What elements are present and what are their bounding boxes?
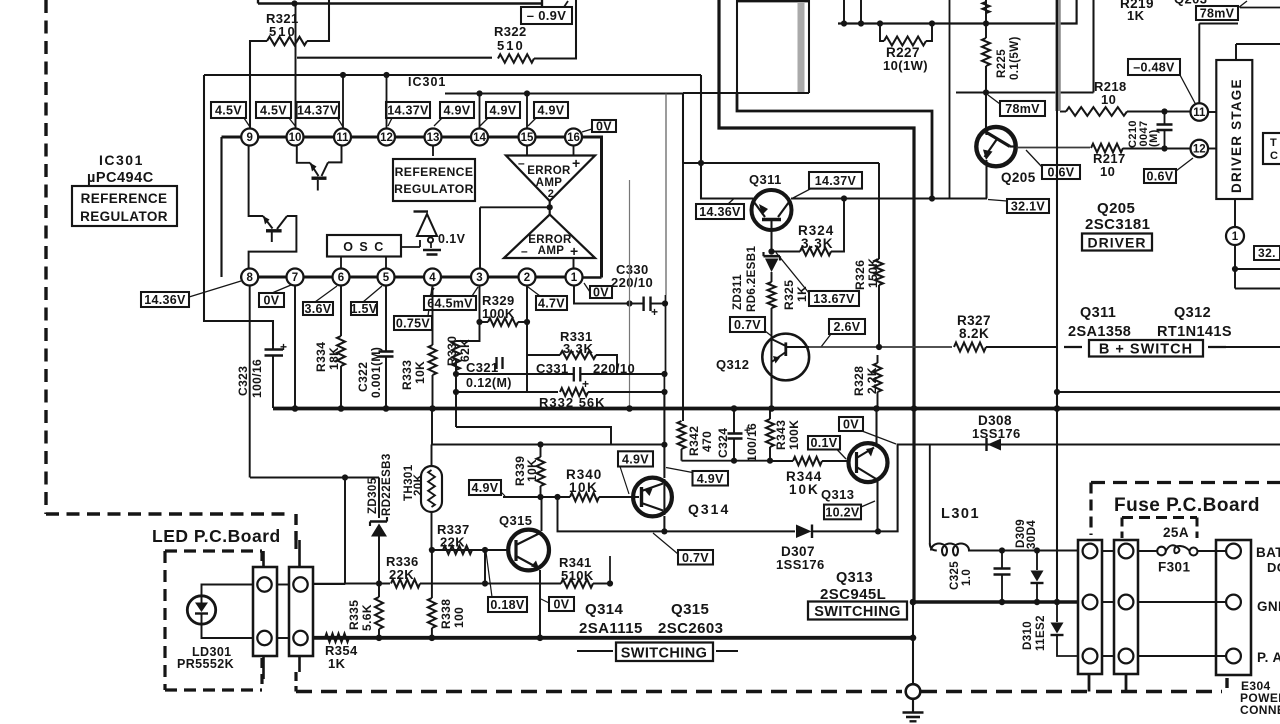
svg-text:1SS176: 1SS176 bbox=[776, 557, 825, 572]
svg-text:11: 11 bbox=[1193, 107, 1206, 119]
text IC301 top bbox=[408, 75, 446, 89]
svg-text:0V: 0V bbox=[554, 598, 570, 612]
label 0.18V bbox=[486, 552, 527, 612]
label 13.67V bbox=[776, 253, 859, 307]
svg-text:ERROR: ERROR bbox=[527, 165, 571, 177]
resistor R217 bbox=[1091, 144, 1191, 179]
svg-text:R342: R342 bbox=[687, 426, 701, 456]
svg-text:2SC2603: 2SC2603 bbox=[658, 620, 723, 637]
svg-text:IC301: IC301 bbox=[99, 152, 144, 168]
wire pin10 riser bbox=[295, 4, 297, 130]
wire Q312 emitter to bus bbox=[770, 380, 772, 409]
svg-text:RT1N141S: RT1N141S bbox=[1157, 324, 1232, 340]
node D309 top bbox=[1034, 547, 1040, 553]
svg-text:C325: C325 bbox=[949, 561, 961, 590]
svg-text:4: 4 bbox=[429, 272, 436, 284]
label -0.9V bbox=[521, 1, 572, 24]
label 0V Q315 bbox=[541, 597, 574, 612]
svg-text:DC: DC bbox=[1267, 560, 1280, 575]
node R337 right bbox=[482, 547, 488, 553]
label 14.37V pin12 bbox=[386, 102, 430, 126]
pin 3 IC301 bbox=[471, 269, 488, 286]
text GND bbox=[1257, 599, 1280, 614]
capacitor C330 bbox=[611, 262, 665, 319]
node pin11 tap bbox=[340, 72, 346, 78]
wire IC pin rail top bbox=[222, 136, 583, 139]
sawtooth osc symbol bbox=[401, 212, 466, 255]
node bus x914 bbox=[911, 405, 918, 412]
svg-text:11ES2: 11ES2 bbox=[1035, 615, 1047, 651]
wire line A bbox=[456, 373, 665, 375]
pin 4 IC301 bbox=[424, 269, 441, 286]
wire IC left edge bbox=[220, 137, 222, 277]
node line A left bbox=[453, 371, 459, 377]
node C330 left bbox=[626, 300, 632, 306]
text Q205 2SC3181 bbox=[1085, 200, 1150, 233]
label 0V pin16 bbox=[582, 120, 616, 134]
text LED P.C.Board bbox=[152, 526, 281, 546]
wire bottom-left dashed bbox=[46, 514, 296, 540]
text Q312 ref bbox=[716, 357, 749, 372]
pin 11 IC301 bbox=[334, 129, 351, 146]
label 4.9V pin13 bbox=[434, 102, 474, 126]
label REFERENCE REGULATOR bbox=[72, 186, 177, 226]
node bus x734 bbox=[731, 405, 738, 412]
label 4.7V pin2 bbox=[528, 287, 567, 311]
node x485 y583 bbox=[482, 580, 488, 586]
resistor R324 bbox=[772, 199, 845, 256]
op-amp ERROR AMP 1 bbox=[504, 201, 595, 259]
resistor R331 bbox=[527, 322, 617, 392]
node x1057 y392 bbox=[1054, 389, 1060, 395]
svg-text:R334: R334 bbox=[314, 342, 328, 372]
label 1.5V pin5 bbox=[351, 286, 382, 316]
resistor R327 bbox=[954, 313, 1058, 352]
node R343 bottom bbox=[767, 458, 773, 464]
node Q311 base node bbox=[768, 248, 774, 254]
text Q312 type bbox=[1157, 305, 1232, 340]
resistor R325 bbox=[768, 280, 810, 337]
wire pin12 stub right bbox=[1208, 148, 1216, 150]
svg-text:RD22ESB3: RD22ESB3 bbox=[381, 453, 393, 516]
svg-text:Q314: Q314 bbox=[585, 601, 624, 618]
wire row3 conn2-3 bbox=[1138, 655, 1226, 657]
svg-text:4.9V: 4.9V bbox=[490, 104, 517, 118]
resistor R218 bbox=[1066, 79, 1127, 116]
capacitor C210 bbox=[1127, 112, 1173, 151]
capacitor C321 bbox=[456, 357, 512, 427]
svg-text:REFERENCE: REFERENCE bbox=[81, 191, 168, 206]
svg-text:(M): (M) bbox=[1148, 129, 1160, 147]
diode D307 bbox=[776, 525, 825, 573]
node x664 y444 bbox=[661, 442, 667, 448]
node Q311 emitter tap bbox=[698, 160, 704, 166]
transistor Q311 bbox=[752, 190, 792, 252]
wire y92 rail bbox=[956, 0, 1094, 93]
label 0.7V Q312 bbox=[730, 317, 772, 336]
wire B+ line right bbox=[1222, 346, 1280, 348]
label 14.36V Q311 bbox=[696, 199, 744, 220]
wire OSC pin6 lead bbox=[340, 257, 342, 270]
node bus x386 bbox=[383, 405, 390, 412]
svg-text:Q311: Q311 bbox=[1080, 305, 1116, 321]
resistor R338 bbox=[428, 550, 466, 638]
transistor Q315 bbox=[508, 530, 549, 571]
wire grey band top center bbox=[798, 2, 805, 92]
svg-text:14.37V: 14.37V bbox=[815, 174, 857, 188]
svg-text:IC301: IC301 bbox=[408, 75, 446, 89]
node bus x1057 bbox=[1054, 405, 1061, 412]
label REFERENCE REGULATOR internal bbox=[393, 159, 475, 201]
pin 8 IC301 bbox=[241, 269, 258, 286]
wire Q312 base line bbox=[809, 346, 952, 348]
svg-text:10K: 10K bbox=[413, 361, 427, 384]
thermistor TH301 bbox=[403, 445, 442, 551]
wire LED top link bbox=[202, 585, 254, 597]
svg-text:64.5mV: 64.5mV bbox=[427, 297, 473, 311]
svg-text:R322: R322 bbox=[494, 24, 527, 39]
label 0V pin1 bbox=[584, 283, 612, 300]
pin 12 IC301 bbox=[378, 129, 395, 146]
svg-text:3.6V: 3.6V bbox=[305, 302, 332, 316]
wire x664 chord bbox=[663, 479, 665, 515]
svg-text:R328: R328 bbox=[852, 366, 866, 396]
svg-text:15: 15 bbox=[521, 132, 534, 144]
svg-text:Q315: Q315 bbox=[671, 601, 709, 618]
pin 7 IC301 bbox=[287, 269, 304, 286]
svg-text:100: 100 bbox=[452, 607, 466, 628]
svg-text:2SA1115: 2SA1115 bbox=[579, 620, 643, 637]
wire top rail bbox=[258, 0, 542, 7]
wire pin13 stub bbox=[432, 146, 434, 157]
svg-text:DRIVER: DRIVER bbox=[1088, 235, 1147, 251]
svg-text:SWITCHING: SWITCHING bbox=[814, 604, 901, 620]
node line A right bbox=[661, 371, 667, 377]
svg-text:1: 1 bbox=[571, 272, 578, 284]
label 64.5mV pin3 bbox=[424, 287, 478, 311]
wire Q311 emitter link bbox=[701, 163, 753, 199]
transistor Q314 bbox=[633, 478, 672, 517]
svg-text:R335: R335 bbox=[347, 600, 361, 630]
resistor R343 bbox=[766, 409, 801, 461]
svg-text:5: 5 bbox=[383, 272, 390, 284]
capacitor C324 bbox=[716, 409, 759, 463]
svg-text:14: 14 bbox=[473, 132, 486, 144]
text Q205 ref bbox=[1001, 170, 1036, 185]
wire amp2 input stubs bbox=[527, 146, 574, 156]
pin 2 IC301 bbox=[519, 269, 536, 286]
wire dashed drop to connector bbox=[294, 540, 297, 553]
svg-text:REGULATOR: REGULATOR bbox=[394, 182, 474, 196]
resistor R326 bbox=[853, 163, 883, 346]
resistor R337 bbox=[437, 522, 472, 554]
svg-text:14.37V: 14.37V bbox=[297, 104, 339, 118]
oscillator OSC box bbox=[327, 235, 401, 257]
label 0.1V bbox=[808, 436, 846, 459]
svg-text:C: C bbox=[1270, 150, 1278, 162]
svg-text:DRIVER STAGE: DRIVER STAGE bbox=[1229, 78, 1244, 193]
node y23 b bbox=[858, 20, 864, 26]
resistor R336 bbox=[386, 554, 485, 588]
wire conn1-2 row1 bbox=[1102, 550, 1114, 552]
svg-text:– 0.9V: – 0.9V bbox=[527, 8, 566, 23]
svg-text:ZD305: ZD305 bbox=[367, 477, 379, 514]
wire x913 ground drop bbox=[912, 602, 914, 684]
wire connB bottom stub bbox=[298, 656, 301, 672]
svg-text:510K: 510K bbox=[561, 568, 594, 583]
node C330 right bbox=[662, 300, 668, 306]
node pin15 tap bbox=[524, 90, 530, 96]
wire pin1 driver top bbox=[1234, 199, 1236, 227]
svg-text:SWITCHING: SWITCHING bbox=[621, 646, 708, 662]
svg-text:R225: R225 bbox=[996, 49, 1008, 78]
svg-text:3: 3 bbox=[476, 272, 482, 284]
svg-text:0.7V: 0.7V bbox=[682, 551, 709, 565]
svg-text:3.3K: 3.3K bbox=[801, 236, 834, 251]
transistor Q313 bbox=[849, 443, 888, 482]
node bus2 right bbox=[910, 635, 917, 642]
svg-text:R338: R338 bbox=[439, 599, 453, 629]
wire conn1-2 row2 bbox=[1102, 601, 1114, 603]
wire Q315 collector bbox=[541, 497, 543, 531]
svg-text:16: 16 bbox=[567, 132, 580, 144]
node pin14 tap bbox=[476, 90, 482, 96]
label 0.6V left bbox=[1026, 150, 1080, 180]
svg-text:2SC3181: 2SC3181 bbox=[1085, 216, 1150, 233]
svg-text:C321: C321 bbox=[466, 360, 499, 375]
ground symbol bbox=[903, 684, 924, 721]
node R329 left bbox=[476, 319, 482, 325]
resistor R340 bbox=[541, 467, 640, 501]
svg-text:1SS176: 1SS176 bbox=[972, 426, 1021, 441]
svg-text:LED P.C.Board: LED P.C.Board bbox=[152, 526, 281, 546]
wire LED bottom link bbox=[202, 624, 254, 638]
label 4.9V Q314 right bbox=[666, 468, 728, 486]
text LD301 PR5552K bbox=[177, 645, 234, 671]
text uPC494C bbox=[87, 170, 154, 186]
svg-text:510: 510 bbox=[269, 24, 297, 39]
capacitor C325 bbox=[949, 551, 1011, 603]
svg-text:4.9V: 4.9V bbox=[697, 472, 724, 486]
led LD301 bbox=[187, 596, 215, 624]
node x1057 y602 bbox=[1054, 599, 1060, 605]
svg-text:µPC494C: µPC494C bbox=[87, 170, 154, 186]
resistor R334 bbox=[314, 286, 345, 408]
svg-text:150K: 150K bbox=[866, 258, 880, 288]
resistor R342 bbox=[678, 421, 715, 461]
svg-text:0V: 0V bbox=[596, 120, 612, 134]
wire gnd rail y602 bbox=[913, 600, 1078, 603]
svg-text:13: 13 bbox=[427, 132, 440, 144]
svg-text:BAT: BAT bbox=[1256, 545, 1280, 560]
svg-text:14.36V: 14.36V bbox=[144, 293, 186, 307]
wire conn2 bottom stub bbox=[1125, 674, 1128, 692]
node bus x771.5 bbox=[768, 405, 775, 412]
resistor R225 bbox=[982, 0, 1021, 129]
svg-text:5.6K: 5.6K bbox=[360, 604, 374, 631]
svg-text:PR5552K: PR5552K bbox=[177, 657, 234, 671]
svg-text:4.5V: 4.5V bbox=[215, 104, 242, 118]
wire x345 drop bbox=[313, 478, 345, 584]
node R341 right bbox=[607, 580, 613, 586]
svg-text:1K: 1K bbox=[795, 286, 809, 302]
svg-text:4.9V: 4.9V bbox=[622, 452, 649, 466]
wire C321 bottom link bbox=[456, 427, 611, 445]
svg-text:1K: 1K bbox=[328, 656, 346, 671]
connector LED B bbox=[289, 567, 313, 656]
wire Q311 collector line bbox=[791, 197, 987, 199]
wire conn row2 link bbox=[277, 637, 289, 639]
wire thick y128 bbox=[719, 0, 914, 409]
svg-text:CONNE: CONNE bbox=[1240, 703, 1280, 717]
connector fuse 1 bbox=[1078, 540, 1102, 674]
node R329 right bbox=[524, 319, 530, 325]
wire pin1 branch bbox=[1235, 268, 1280, 270]
svg-text:4.9V: 4.9V bbox=[538, 104, 565, 118]
svg-text:P. A: P. A bbox=[1257, 650, 1280, 665]
led board dashed box bbox=[165, 551, 262, 690]
svg-text:Q313: Q313 bbox=[821, 487, 854, 502]
pin 16 IC301 bbox=[565, 129, 582, 146]
svg-text:13.67V: 13.67V bbox=[813, 292, 855, 306]
wire Q313 emitter bbox=[876, 480, 878, 531]
label 78mV top bbox=[1196, 1, 1280, 21]
wire Q313 collector bbox=[875, 409, 877, 447]
label 0.7V Q314 bbox=[653, 533, 713, 565]
wire pin7 lead bbox=[294, 286, 296, 408]
resistor R354 bbox=[325, 634, 358, 671]
svg-text:1.0: 1.0 bbox=[961, 569, 973, 586]
wire Q205 base line bbox=[1017, 147, 1091, 149]
label SWITCHING Q314 bbox=[577, 643, 738, 662]
svg-text:0V: 0V bbox=[593, 286, 609, 300]
node R339 top bbox=[537, 441, 543, 447]
svg-text:0.12(M): 0.12(M) bbox=[466, 376, 512, 390]
wire grey vertical x629 bbox=[629, 180, 631, 408]
wire R337 line bbox=[432, 549, 509, 551]
wire stub x844 bbox=[843, 0, 845, 24]
fuse board dashed top bbox=[1091, 483, 1280, 536]
wire conn1 bottom stub bbox=[1088, 674, 1091, 692]
wire pin1 down bbox=[574, 286, 630, 304]
svg-text:1.5V: 1.5V bbox=[351, 302, 378, 316]
bottom dashed border bbox=[296, 672, 1227, 692]
node bus x629.5 bbox=[626, 405, 633, 412]
svg-text:100/16: 100/16 bbox=[745, 423, 759, 462]
svg-text:ZD311: ZD311 bbox=[732, 274, 744, 310]
svg-text:7: 7 bbox=[292, 272, 298, 284]
wire connA top stub bbox=[262, 551, 265, 567]
wire x683 down to R342 bbox=[682, 93, 684, 421]
svg-text:C323: C323 bbox=[236, 366, 250, 396]
svg-text:3.3K: 3.3K bbox=[563, 341, 594, 356]
svg-text:12: 12 bbox=[380, 132, 393, 144]
svg-text:14.36V: 14.36V bbox=[699, 205, 741, 219]
resistor R329 bbox=[480, 286, 528, 326]
transistor Q205 bbox=[976, 127, 1016, 166]
wire y392 branch bbox=[1057, 391, 1280, 393]
svg-text:25A: 25A bbox=[1163, 525, 1189, 540]
svg-text:Q315: Q315 bbox=[499, 513, 532, 528]
wire amp out to pin3 bbox=[480, 207, 550, 269]
wire x683 drop bbox=[682, 93, 684, 163]
inductor L301 bbox=[930, 445, 1002, 556]
node C324 bottom bbox=[731, 458, 737, 464]
svg-text:0V: 0V bbox=[264, 294, 280, 308]
pin 11 driver bbox=[1191, 103, 1209, 121]
svg-text:0.7V: 0.7V bbox=[734, 318, 761, 332]
svg-text:–0.48V: –0.48V bbox=[1133, 61, 1175, 75]
svg-text:78mV: 78mV bbox=[1200, 7, 1235, 21]
wire y460 line bbox=[682, 460, 771, 462]
label 0V Q313 bbox=[839, 417, 896, 444]
pin 15 IC301 bbox=[519, 129, 536, 146]
capacitor C331 bbox=[536, 361, 635, 391]
wire pin16 to pin1 feedback bbox=[583, 137, 602, 278]
connector LED A bbox=[253, 567, 277, 656]
svg-text:R333: R333 bbox=[400, 360, 414, 390]
svg-text:220/10: 220/10 bbox=[611, 275, 653, 290]
wire pin12 riser bbox=[386, 75, 388, 128]
node y23 c bbox=[877, 20, 883, 26]
node y23 d bbox=[929, 20, 935, 26]
fuse F301 bbox=[1138, 525, 1226, 575]
resistor R321 bbox=[250, 0, 329, 129]
svg-text:2: 2 bbox=[524, 272, 530, 284]
svg-text:Q311: Q311 bbox=[749, 172, 782, 187]
svg-text:30D4: 30D4 bbox=[1026, 520, 1038, 549]
svg-text:4.7V: 4.7V bbox=[538, 297, 565, 311]
node y477 x345 bbox=[342, 474, 348, 480]
node C325 bottom bbox=[999, 599, 1005, 605]
svg-text:+: + bbox=[280, 340, 287, 354]
text Q314 2SA1115 bbox=[579, 601, 643, 637]
svg-text:9: 9 bbox=[246, 132, 252, 144]
zener ZD311 bbox=[732, 246, 780, 312]
wire top rail y23.5 bbox=[838, 0, 1077, 24]
wire row1 to conn bbox=[1002, 550, 1078, 552]
node bus2 R338 bbox=[429, 635, 436, 642]
label 0.75V pin4 bbox=[394, 287, 432, 331]
resistor R322 bbox=[297, 0, 576, 63]
wire Q205 emitter down bbox=[985, 160, 987, 199]
pin 5 IC301 bbox=[378, 269, 395, 286]
text Q311 ref bbox=[749, 172, 782, 187]
text Q203 frag bbox=[1174, 0, 1207, 7]
wire x610 to 0.7V bbox=[609, 556, 611, 584]
svg-text:22K: 22K bbox=[389, 567, 414, 582]
svg-text:D310: D310 bbox=[1022, 621, 1034, 650]
label B+ SWITCH bbox=[1064, 340, 1226, 358]
svg-text:78mV: 78mV bbox=[1005, 102, 1040, 116]
svg-text:4.5V: 4.5V bbox=[260, 104, 287, 118]
node y23 a bbox=[841, 20, 847, 26]
label 78mV left bbox=[988, 95, 1045, 116]
wire x949 vertical bbox=[949, 0, 951, 199]
wire connA bottom stub bbox=[262, 656, 265, 679]
wire grey band x1058 bbox=[1055, 0, 1061, 111]
svg-text:1: 1 bbox=[1232, 231, 1239, 243]
diode D309 bbox=[1015, 519, 1044, 602]
resistor R339 bbox=[513, 445, 545, 498]
wire R218 rail bbox=[1060, 111, 1191, 113]
node ZD305 bottom bbox=[376, 580, 382, 586]
svg-text:Fuse P.C.Board: Fuse P.C.Board bbox=[1114, 495, 1260, 516]
svg-text:0.6V: 0.6V bbox=[1147, 170, 1174, 184]
label DRIVER bbox=[1082, 234, 1152, 251]
label SWITCHING Q313 bbox=[808, 602, 907, 621]
svg-text:0.1V: 0.1V bbox=[438, 232, 466, 246]
